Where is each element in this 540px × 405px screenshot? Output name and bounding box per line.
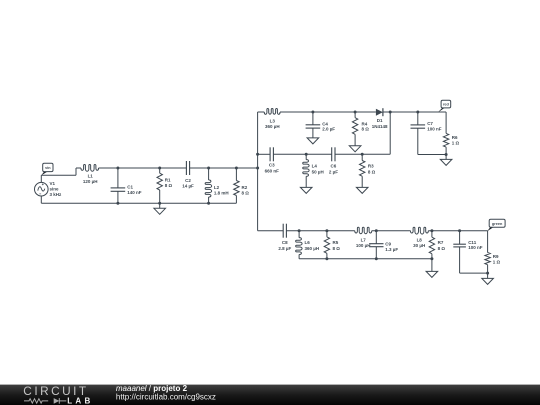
D1 value label — [372, 124, 388, 129]
svg-text:L6: L6 — [305, 240, 311, 245]
svg-text:R9: R9 — [493, 254, 499, 259]
L1 value label — [83, 179, 98, 184]
junction L4 top — [305, 153, 308, 156]
R2 name label — [242, 185, 248, 190]
D1 name label — [377, 118, 383, 123]
node green flag — [487, 219, 505, 231]
L6 value label — [305, 246, 320, 251]
C2 value label — [182, 184, 194, 189]
C1 name label — [127, 184, 133, 189]
svg-text:8 Ω: 8 Ω — [362, 127, 370, 132]
svg-text:V1: V1 — [50, 181, 56, 186]
R9 name label — [493, 254, 499, 259]
L1 name label — [88, 173, 94, 178]
junction L2 bottom — [207, 202, 210, 205]
diode D1 — [376, 108, 383, 116]
R7 name label — [438, 240, 444, 245]
junction C11 top — [458, 229, 461, 232]
resistor R3 — [360, 154, 365, 187]
svg-text:3 kHz: 3 kHz — [50, 192, 63, 197]
ground below R1 — [154, 203, 166, 214]
svg-text:1.3 µF: 1.3 µF — [385, 247, 398, 252]
inductor L4 — [303, 154, 309, 187]
R9 value label — [493, 259, 501, 264]
C9 value label — [385, 247, 398, 252]
svg-text:R5: R5 — [333, 240, 339, 245]
C9 name label — [385, 241, 391, 246]
svg-text:C4: C4 — [322, 121, 328, 126]
junction R1 bottom — [158, 202, 161, 205]
svg-text:L2: L2 — [214, 185, 220, 190]
svg-text:L7: L7 — [361, 237, 367, 242]
L3 value label — [265, 124, 280, 129]
svg-text:C2: C2 — [185, 178, 191, 183]
L6 name label — [305, 240, 311, 245]
svg-text:vin: vin — [45, 166, 51, 170]
inductor L7 — [355, 227, 372, 233]
C1 value label — [127, 190, 142, 195]
svg-text:D1: D1 — [377, 118, 383, 123]
svg-text:100 nF: 100 nF — [468, 245, 483, 250]
C7 value label — [427, 127, 442, 132]
C3 name label — [269, 163, 275, 168]
footer title maaanel / projeto 2 — [116, 384, 188, 393]
svg-text:8 Ω: 8 Ω — [438, 246, 446, 251]
capacitor C7 — [411, 112, 426, 155]
ground below C4 — [307, 138, 319, 144]
junction C1 bottom — [116, 202, 119, 205]
svg-text:14 µF: 14 µF — [182, 184, 194, 189]
L7 name label — [361, 237, 367, 242]
R1 name label — [165, 177, 171, 182]
wire C7 bottom to R6 — [418, 154, 446, 156]
svg-text:8 Ω: 8 Ω — [368, 169, 376, 174]
ground below R7 — [426, 259, 438, 278]
svg-text:C1: C1 — [127, 184, 133, 189]
wire step up — [75, 168, 77, 175]
svg-text:8 Ω: 8 Ω — [333, 246, 341, 251]
svg-text:red: red — [443, 103, 450, 107]
capacitor C11 — [453, 231, 466, 273]
wire L8 to green corner — [428, 230, 487, 232]
resistor R5 — [324, 231, 329, 259]
C7 name label — [427, 121, 433, 126]
wire V1 bottom lead — [40, 196, 42, 203]
svg-text:360 µH: 360 µH — [305, 246, 320, 251]
L7 value label — [356, 243, 371, 248]
svg-text:R6: R6 — [452, 135, 458, 140]
resistor R1 — [157, 168, 162, 203]
wire upper rail left — [258, 111, 265, 113]
R7 value label — [438, 246, 446, 251]
junction R7 top — [430, 229, 433, 232]
svg-text:http://circuitlab.com/cg9scxz: http://circuitlab.com/cg9scxz — [116, 392, 216, 401]
svg-text:LAB: LAB — [67, 396, 93, 405]
junction L2 top — [207, 167, 210, 170]
C6 name label — [331, 164, 337, 169]
ground below R3 — [356, 187, 368, 193]
svg-text:2 µF: 2 µF — [329, 169, 338, 174]
svg-text:L3: L3 — [270, 118, 276, 123]
junction R7 bottom — [430, 257, 433, 260]
R1 value label — [165, 183, 173, 188]
svg-text:30 µH: 30 µH — [413, 243, 425, 248]
junction C9 bottom — [375, 257, 378, 260]
wire L3 to D1 — [280, 111, 376, 113]
R5 value label — [333, 246, 341, 251]
junction R5 bottom — [325, 257, 328, 260]
svg-text:120 µH: 120 µH — [83, 179, 98, 184]
ground below R9 — [482, 273, 494, 284]
C6 value label — [329, 169, 338, 174]
junction R1 top — [158, 167, 161, 170]
R5 name label — [333, 240, 339, 245]
svg-text:R2: R2 — [242, 185, 248, 190]
V1 value label 3 kHz — [50, 192, 63, 197]
voltage source V1 — [35, 182, 49, 196]
svg-text:green: green — [492, 222, 503, 226]
svg-text:C6: C6 — [331, 164, 337, 169]
junction C9 top — [375, 229, 378, 232]
junction D1 output — [389, 111, 392, 114]
svg-text:sine: sine — [50, 187, 60, 192]
L3 name label — [270, 118, 276, 123]
svg-text:L1: L1 — [88, 173, 94, 178]
ground below R4 — [349, 146, 361, 152]
svg-text:L8: L8 — [417, 237, 423, 242]
capacitor C3 — [270, 147, 273, 161]
svg-text:50 µH: 50 µH — [312, 169, 324, 174]
ground below L4 — [300, 187, 312, 193]
capacitor C9 — [369, 231, 383, 259]
footer url — [116, 392, 216, 401]
C8 name label — [282, 240, 288, 245]
wire L7 to L8 — [372, 230, 411, 232]
junction trunk mid rail — [256, 167, 259, 170]
svg-text:R1: R1 — [165, 177, 171, 182]
svg-text:8 Ω: 8 Ω — [165, 183, 173, 188]
junction C1 top — [116, 167, 119, 170]
svg-text:R3: R3 — [368, 164, 374, 169]
L4 value label — [312, 169, 324, 174]
svg-text:660 nF: 660 nF — [265, 168, 280, 173]
svg-text:C3: C3 — [269, 163, 275, 168]
wire branch trunk to C3 — [258, 153, 271, 155]
R2 value label — [242, 190, 250, 195]
wire vin corner to step — [41, 174, 76, 176]
wire L1 to C2 — [99, 167, 187, 169]
CircuitLab logo CIRCUIT text — [23, 384, 88, 398]
svg-text:1 Ω: 1 Ω — [493, 259, 501, 264]
inductor L1 — [81, 165, 99, 172]
junction R9 bottom — [486, 272, 489, 275]
wire D1 to corner — [383, 111, 446, 113]
junction R2 top — [235, 167, 238, 170]
C11 value label — [468, 245, 483, 250]
footer bar — [0, 385, 540, 405]
C2 name label — [185, 178, 191, 183]
junction R4 top — [354, 111, 357, 114]
svg-text:1 Ω: 1 Ω — [452, 141, 460, 146]
L8 name label — [417, 237, 423, 242]
capacitor C4 — [306, 112, 321, 138]
L2 value label — [214, 190, 229, 195]
svg-text:C7: C7 — [427, 121, 433, 126]
resistor R6 — [443, 112, 448, 155]
C4 name label — [322, 121, 328, 126]
capacitor C2 — [186, 161, 189, 175]
svg-text:100 nF: 100 nF — [427, 127, 442, 132]
R6 name label — [452, 135, 458, 140]
C11 name label — [468, 240, 477, 245]
C3 value label — [265, 168, 280, 173]
junction R6 bottom — [445, 153, 448, 156]
R6 value label — [452, 141, 460, 146]
svg-text:R4: R4 — [362, 121, 368, 126]
wire step to L1 — [76, 167, 81, 169]
resistor R4 — [352, 112, 357, 146]
node vin flag — [41, 163, 53, 175]
junction C4 top — [311, 111, 314, 114]
wire D1 node down to branch — [389, 112, 391, 154]
CircuitLab logo resistor-diode glyph — [24, 398, 66, 404]
wire C11 bottom to R9 — [460, 272, 488, 274]
svg-text:2.8 µF: 2.8 µF — [278, 246, 291, 251]
wire trunk vertical — [257, 112, 259, 231]
inductor L2 — [205, 168, 212, 203]
junction R5 top — [325, 229, 328, 232]
junction C7 top — [416, 111, 419, 114]
R4 name label — [362, 121, 368, 126]
svg-text:1N4148: 1N4148 — [372, 124, 388, 129]
V1 name label — [50, 181, 56, 186]
CircuitLab logo LAB text — [67, 396, 93, 405]
inductor L3 — [264, 109, 280, 115]
svg-text:140 nF: 140 nF — [127, 190, 142, 195]
C8 value label — [278, 246, 291, 251]
wire lower rail left — [258, 230, 284, 232]
resistor R9 — [485, 231, 490, 273]
resistor R2 — [234, 168, 239, 203]
L8 value label — [413, 243, 425, 248]
svg-text:360 µH: 360 µH — [265, 124, 280, 129]
R3 value label — [368, 169, 376, 174]
wire C3 to C6 — [273, 153, 331, 155]
svg-text:2.0 µF: 2.0 µF — [322, 127, 335, 132]
L2 name label — [214, 185, 220, 190]
wire C8 to L7 — [286, 230, 354, 232]
capacitor C1 — [111, 168, 126, 203]
ground below R6 — [440, 155, 452, 166]
junction L6 top — [298, 229, 301, 232]
wire C6 to corner — [335, 153, 390, 155]
resistor R7 — [429, 231, 434, 259]
svg-text:L4: L4 — [312, 164, 318, 169]
R3 name label — [368, 164, 374, 169]
svg-text:C8: C8 — [282, 240, 288, 245]
node red flag — [438, 100, 451, 112]
wire V1 top lead — [40, 175, 42, 182]
wire bottom rail — [41, 202, 236, 204]
capacitor C6 — [332, 147, 335, 161]
V1 value label sine — [50, 187, 60, 192]
capacitor C8 — [283, 224, 286, 238]
svg-text:R7: R7 — [438, 240, 444, 245]
inductor L8 — [410, 227, 428, 234]
svg-text:8 Ω: 8 Ω — [242, 190, 250, 195]
C4 value label — [322, 127, 335, 132]
L4 name label — [312, 164, 318, 169]
svg-text:1.8 mH: 1.8 mH — [214, 190, 229, 195]
junction R3 top — [361, 153, 364, 156]
wire lower sub-rail — [299, 258, 432, 260]
svg-text:C9: C9 — [385, 241, 391, 246]
wire C2 to trunk — [190, 167, 258, 169]
R4 value label — [362, 127, 370, 132]
junction trunk C3 branch — [256, 153, 259, 156]
svg-text:100 µH: 100 µH — [356, 243, 371, 248]
inductor L6 — [296, 231, 302, 259]
